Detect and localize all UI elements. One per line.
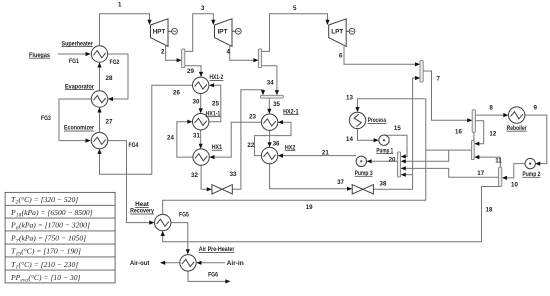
svg-text:HX1-1: HX1-1: [206, 110, 221, 117]
svg-text:LPT: LPT: [331, 29, 343, 36]
svg-text:Air Pre-Heater: Air Pre-Heater: [199, 246, 235, 253]
svg-text:10: 10: [511, 182, 518, 189]
svg-text:26: 26: [173, 90, 180, 97]
svg-text:Process: Process: [368, 117, 387, 124]
svg-text:Pump 1: Pump 1: [376, 147, 393, 154]
svg-text:12: 12: [489, 131, 496, 138]
svg-text:FG5: FG5: [179, 211, 189, 218]
svg-text:22: 22: [247, 142, 254, 149]
svg-text:30: 30: [193, 99, 200, 106]
svg-text:Pump 2: Pump 2: [522, 171, 540, 178]
svg-text:3: 3: [201, 5, 205, 12]
svg-text:P6(kPa) = [1700 − 3200]: P6(kPa) = [1700 − 3200]: [10, 221, 90, 232]
svg-text:18: 18: [486, 207, 493, 214]
svg-text:24: 24: [167, 135, 174, 142]
svg-text:11: 11: [495, 158, 502, 165]
svg-text:T19(°C) = [170 − 190]: T19(°C) = [170 − 190]: [11, 247, 81, 258]
svg-text:27: 27: [106, 119, 113, 126]
svg-text:21: 21: [322, 150, 329, 157]
svg-text:13: 13: [346, 95, 353, 102]
svg-text:PPeva(°C) = [10 − 30]: PPeva(°C) = [10 − 30]: [10, 273, 81, 284]
svg-text:7: 7: [437, 76, 441, 83]
svg-text:HX1-2: HX1-2: [210, 74, 224, 81]
svg-text:T2(°C) = [320 − 520]: T2(°C) = [320 − 520]: [11, 195, 78, 206]
svg-text:9: 9: [534, 105, 538, 112]
svg-text:34: 34: [267, 80, 274, 87]
svg-text:28: 28: [106, 75, 113, 82]
svg-text:19: 19: [306, 204, 313, 211]
svg-text:HX2: HX2: [285, 144, 296, 151]
svg-text:15: 15: [394, 125, 401, 132]
svg-text:37: 37: [337, 179, 344, 186]
svg-text:6: 6: [339, 53, 343, 60]
svg-text:33: 33: [230, 171, 237, 178]
svg-text:14: 14: [346, 136, 353, 143]
svg-text:P7(kPa) = [750 − 1050]: P7(kPa) = [750 − 1050]: [10, 234, 86, 245]
svg-text:17: 17: [477, 170, 484, 177]
svg-text:FG4: FG4: [129, 142, 139, 149]
svg-text:IPT: IPT: [218, 29, 228, 36]
svg-text:FG3: FG3: [41, 115, 51, 122]
svg-text:31: 31: [193, 133, 200, 140]
svg-text:FG6: FG6: [208, 272, 218, 279]
svg-text:Fluegas: Fluegas: [29, 52, 50, 59]
svg-text:FG1: FG1: [69, 58, 79, 65]
svg-text:Superheater: Superheater: [62, 40, 94, 47]
svg-text:1: 1: [118, 2, 122, 9]
svg-text:38: 38: [380, 181, 387, 188]
svg-text:Reboiler: Reboiler: [507, 125, 527, 132]
svg-text:2: 2: [161, 49, 165, 56]
svg-text:25: 25: [212, 101, 219, 108]
svg-text:Evaporator: Evaporator: [65, 83, 94, 90]
svg-text:Air-out: Air-out: [130, 260, 150, 267]
svg-text:HPT: HPT: [153, 29, 166, 36]
svg-text:T1(°C) = [210 − 230]: T1(°C) = [210 − 230]: [11, 260, 78, 271]
svg-text:20: 20: [389, 157, 396, 164]
svg-text:4: 4: [227, 49, 231, 56]
svg-text:Recovery: Recovery: [130, 208, 154, 215]
svg-text:16: 16: [455, 129, 462, 136]
svg-text:32: 32: [191, 172, 198, 179]
svg-text:Economizer: Economizer: [64, 125, 94, 132]
svg-text:35: 35: [273, 101, 280, 108]
svg-text:8: 8: [489, 105, 493, 112]
svg-text:HX2-1: HX2-1: [283, 108, 299, 115]
svg-text:29: 29: [187, 68, 194, 75]
svg-text:36: 36: [273, 141, 280, 148]
svg-text:Pump 3: Pump 3: [355, 170, 373, 177]
svg-text:Air-in: Air-in: [227, 260, 244, 267]
svg-text:FG2: FG2: [110, 59, 120, 66]
svg-text:HX1: HX1: [212, 144, 223, 151]
svg-text:23: 23: [249, 114, 256, 121]
svg-text:P18(kPa) = [6500 − 8500]: P18(kPa) = [6500 − 8500]: [10, 208, 93, 219]
svg-text:5: 5: [293, 5, 297, 12]
